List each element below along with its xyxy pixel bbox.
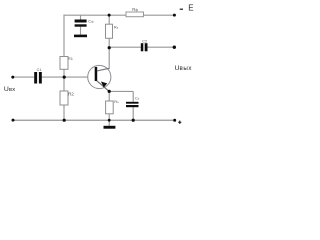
node: rail junction at Rk branch bbox=[108, 14, 111, 17]
resistor Rk (collector) bbox=[106, 24, 119, 38]
svg-text:R1: R1 bbox=[68, 56, 74, 61]
node: base divider junction bbox=[63, 76, 66, 79]
svg-text:Uвх: Uвх bbox=[4, 86, 16, 93]
resistor R1 bbox=[60, 56, 74, 69]
transistor VT1 (PNP) bbox=[88, 65, 111, 91]
ground bar under Cf bbox=[74, 35, 87, 38]
label -E supply bbox=[180, 4, 194, 13]
svg-text:E: E bbox=[188, 4, 193, 13]
wire left column upper (rail corner down to R1) bbox=[63, 15, 65, 57]
wire Cf top lead bbox=[80, 15, 82, 19]
wire emitter node to Ce bbox=[109, 90, 133, 92]
wire top rail right segment bbox=[144, 14, 175, 16]
transistor collector lead (diagonal) bbox=[97, 68, 109, 71]
capacitor C1 (input coupling) bbox=[34, 68, 42, 83]
node: -E supply terminal bbox=[173, 14, 176, 17]
svg-text:Cэ: Cэ bbox=[135, 96, 140, 100]
capacitor Cf (supply filter) bbox=[75, 19, 94, 26]
node: output terminal top bbox=[173, 46, 176, 49]
wire base node to transistor base bbox=[64, 76, 88, 78]
wire bottom rail bbox=[13, 119, 175, 121]
node: input terminal bbox=[11, 76, 14, 79]
wire Re bottom to bottom rail bbox=[108, 114, 110, 121]
node: bottom rail Ce junction bbox=[132, 119, 135, 122]
node: emitter junction bbox=[108, 90, 111, 93]
capacitor C2 (output coupling) bbox=[141, 39, 148, 51]
svg-text:C1: C1 bbox=[37, 68, 42, 72]
node: collector output tap bbox=[108, 46, 111, 49]
wire ground stub under Re bbox=[108, 120, 110, 126]
transistor emitter arrow (PNP, pointing toward base) bbox=[101, 82, 107, 88]
wire Rk bottom to collector node bbox=[108, 38, 110, 47]
label + polarity at bottom right terminal bbox=[178, 121, 181, 124]
wire base node down to R2 bbox=[63, 77, 65, 91]
wire emitter node down to Re bbox=[108, 91, 110, 101]
wire C1 to base node bbox=[42, 76, 64, 78]
transistor emitter lead (diagonal) bbox=[97, 81, 109, 92]
resistor Rf (supply filter) bbox=[126, 7, 144, 17]
node: bottom rail Re junction bbox=[108, 119, 111, 122]
node: bottom rail R2 junction bbox=[63, 119, 66, 122]
wire collector node to C2 bbox=[109, 46, 141, 48]
capacitor Ce (emitter bypass) bbox=[126, 96, 140, 107]
svg-text:R2: R2 bbox=[68, 91, 74, 96]
svg-text:Uвых: Uвых bbox=[175, 65, 193, 72]
wire Ce bottom lead to bottom rail bbox=[132, 107, 134, 120]
svg-text:Rэ: Rэ bbox=[114, 99, 119, 104]
wire Ce top lead bbox=[132, 91, 134, 101]
wire input terminal to C1 bbox=[13, 76, 34, 78]
node: bottom rail left terminal bbox=[12, 119, 15, 122]
transistor base bar bbox=[95, 67, 98, 81]
svg-text:Cф: Cф bbox=[88, 19, 94, 23]
ground bar under Re bbox=[104, 126, 116, 129]
wire C2 to output terminal bbox=[148, 46, 175, 48]
wire R1 bottom to base node bbox=[63, 69, 65, 77]
wire top rail left segment bbox=[64, 14, 126, 16]
wire Rk top lead bbox=[108, 15, 110, 24]
wire Cf bottom lead to ground bbox=[80, 27, 82, 35]
svg-text:Rф: Rф bbox=[132, 7, 138, 12]
svg-text:Rк: Rк bbox=[114, 24, 119, 29]
wire collector node down to transistor collector bbox=[108, 47, 110, 69]
node: bottom rail right terminal bbox=[173, 119, 176, 122]
resistor R2 bbox=[60, 91, 74, 105]
resistor Re (emitter) bbox=[106, 99, 119, 114]
svg-text:C2: C2 bbox=[142, 39, 147, 43]
wire R2 bottom to bottom rail bbox=[63, 105, 65, 120]
